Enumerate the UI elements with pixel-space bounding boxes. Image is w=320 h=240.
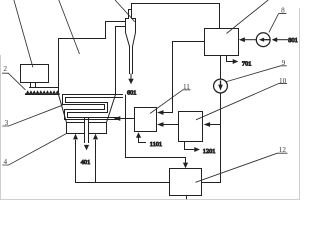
fan circle 8 xyxy=(256,33,270,47)
leader label 12 xyxy=(196,153,288,182)
svg-text:1201: 1201 xyxy=(203,148,216,155)
leader label 11 xyxy=(150,90,190,114)
screw feeder base line xyxy=(26,93,59,95)
box 10 xyxy=(179,112,203,142)
svg-text:4: 4 xyxy=(4,158,8,166)
input 1101 into box11 xyxy=(139,138,146,143)
pump circle 9 xyxy=(214,79,228,93)
wire coil outlet to box12 xyxy=(126,95,186,163)
hopper chute legs xyxy=(31,83,36,88)
wire box7 bottom to pump 9 xyxy=(220,56,222,80)
wire pump down right main xyxy=(202,93,221,183)
leader label 2 xyxy=(2,73,26,90)
output 701 from box7 xyxy=(227,56,233,62)
heat-exchange coil outer wall xyxy=(63,95,123,120)
svg-text:701: 701 xyxy=(242,60,251,67)
box 12 xyxy=(170,169,202,196)
hopper box 2 xyxy=(21,65,49,83)
scan edge left xyxy=(0,55,1,200)
svg-text:2: 2 xyxy=(3,65,7,73)
svg-text:12: 12 xyxy=(279,146,287,154)
svg-text:3: 3 xyxy=(5,119,9,127)
svg-text:11: 11 xyxy=(183,83,190,91)
leader label 3 xyxy=(2,105,62,126)
svg-text:9: 9 xyxy=(282,59,286,67)
screw feeder teeth xyxy=(26,90,59,93)
screw feeder housing xyxy=(30,87,59,89)
hearth inlet arrow right xyxy=(95,140,97,182)
input 801 to fan xyxy=(277,39,288,41)
box12 bottom stub xyxy=(186,196,188,200)
furnace vessel body xyxy=(59,22,126,123)
wire fan to box7 xyxy=(245,39,257,41)
box 11 xyxy=(135,108,157,132)
wire cyclone gas outlet to box7 xyxy=(132,4,220,29)
cyclone vortex finder xyxy=(129,4,132,19)
scan edge bottom xyxy=(0,199,300,201)
input into box10 right xyxy=(210,124,221,126)
downcomer pipe xyxy=(85,118,89,143)
wire box10 to box11 xyxy=(164,124,179,126)
cyclone underflow arrow 601 xyxy=(130,74,132,79)
arrow into box12 top xyxy=(183,163,188,169)
leader line cropped L1 to hopper xyxy=(14,0,33,67)
leader label 9 xyxy=(226,66,287,82)
svg-text:1101: 1101 xyxy=(150,141,162,148)
leader line cropped L2 to furnace xyxy=(59,0,80,54)
svg-text:8: 8 xyxy=(281,7,285,15)
arrow 401 xyxy=(84,145,89,151)
hearth box xyxy=(67,123,107,134)
cyclone body xyxy=(126,19,136,74)
leader label 8 xyxy=(269,14,287,33)
output 1201 from box10 xyxy=(185,142,195,150)
svg-text:801: 801 xyxy=(288,37,297,44)
svg-text:401: 401 xyxy=(81,159,90,166)
hearth inlet arrow left xyxy=(75,140,77,182)
scan edge right xyxy=(299,8,301,200)
box 7 scrubber xyxy=(205,29,239,56)
wire bottom manifold to box12 xyxy=(76,182,170,184)
wire box7 left to box11 xyxy=(164,42,205,113)
leader label 10 xyxy=(196,84,287,120)
leader line cropped L7 to box7 xyxy=(227,0,269,34)
heat-exchange coil inner wall xyxy=(66,98,123,118)
leader label 4 xyxy=(2,134,66,166)
svg-text:601: 601 xyxy=(127,90,136,97)
wire box11 to coil inlet xyxy=(121,118,135,120)
leader line cropped L3 to cyclone xyxy=(115,0,135,22)
svg-text:10: 10 xyxy=(279,77,287,85)
